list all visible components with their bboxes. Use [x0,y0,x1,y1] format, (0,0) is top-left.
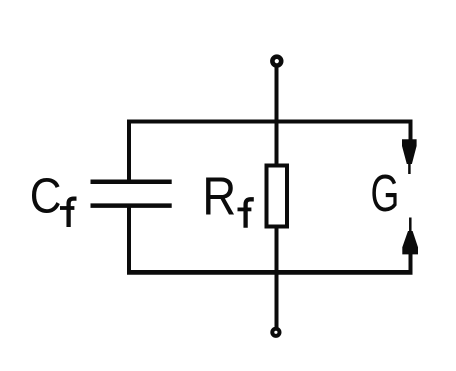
svg-text:C: C [30,168,62,223]
svg-text:R: R [202,166,236,227]
svg-text:G: G [371,164,400,223]
